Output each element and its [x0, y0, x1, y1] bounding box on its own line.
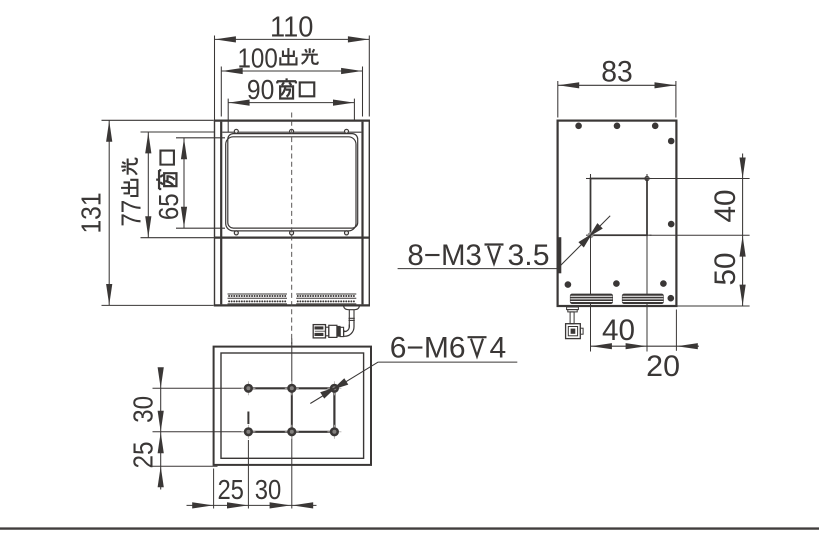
- dim 30 left text (rotated): [126, 396, 158, 423]
- dim 100 extension lines: [220, 67, 222, 117]
- front view body outline: [215, 121, 370, 306]
- front view centerline: [291, 113, 293, 345]
- front vent grille right: [228, 297, 288, 299]
- svg-text:30: 30: [126, 396, 158, 423]
- window frame inner rounded rect: [228, 134, 358, 229]
- left dim line 30/25: [160, 370, 162, 490]
- svg-text:25: 25: [217, 473, 244, 505]
- cable ring 1: [340, 327, 343, 336]
- dim 83 line and arrows: [558, 84, 676, 86]
- side view body outline: [558, 121, 677, 306]
- cable plug slots: [315, 327, 323, 330]
- svg-text:6−M6: 6−M6: [390, 332, 466, 365]
- square corner hole circle top-right: [645, 176, 649, 180]
- dim 25 left text (rotated): [126, 442, 158, 469]
- front view inner side walls: [220, 122, 222, 305]
- side connector tab: [580, 328, 583, 334]
- side vent louvers left: [570, 294, 613, 304]
- square corner tick marks: [586, 178, 595, 180]
- window frame outer rounded rect: [226, 137, 356, 231]
- cable plug body: [313, 325, 325, 338]
- bottom view inner outline: [221, 353, 364, 458]
- dim 131 text (rotated): [75, 193, 107, 234]
- dim 65chuangkou text (rotated): [152, 151, 184, 221]
- dim 40 right text (rotated): [709, 190, 742, 223]
- svg-text:77: 77: [115, 200, 147, 227]
- dim 65 extension lines: [176, 137, 225, 139]
- dim 77 extension lines: [141, 131, 215, 133]
- side view left edge thick bar: [558, 237, 561, 273]
- svg-text:25: 25: [126, 442, 158, 469]
- svg-text:3.5: 3.5: [508, 239, 550, 272]
- svg-text:65: 65: [152, 193, 184, 220]
- svg-text:4: 4: [490, 332, 507, 365]
- label 6-M6 leader: [378, 361, 517, 363]
- side connector washer: [567, 307, 579, 310]
- side view screw dots right column: [668, 138, 675, 145]
- cable elbow: [344, 322, 354, 337]
- bottom ext lines 25/30: [213, 469, 215, 509]
- svg-text:20: 20: [646, 350, 680, 383]
- bottom view centerline: [291, 339, 293, 509]
- dim 65 line and arrows: [183, 138, 185, 228]
- window screws: [234, 129, 238, 133]
- right ext lines 40/50: [650, 178, 750, 180]
- dim 50 right text (rotated): [709, 253, 742, 286]
- svg-text:40: 40: [709, 190, 742, 223]
- left ext lines to holes: [153, 387, 245, 389]
- svg-text:83: 83: [601, 55, 633, 88]
- cable ring 2: [326, 327, 329, 336]
- dim 77chuguang text (rotated): [115, 159, 147, 227]
- svg-text:131: 131: [75, 193, 107, 234]
- dim 83 extension lines: [557, 81, 559, 118]
- right dim line 40/50: [742, 154, 744, 307]
- dim 131 line and arrows: [108, 120, 110, 305]
- svg-text:50: 50: [709, 253, 742, 286]
- svg-text:8−M3: 8−M3: [407, 239, 482, 272]
- side mounting square: [591, 179, 648, 236]
- square column extension lines: [590, 235, 592, 351]
- mounting holes 6x: [241, 387, 255, 389]
- svg-text:110: 110: [270, 11, 313, 43]
- hole connect line center column: [291, 388, 293, 432]
- cable tube vertical: [348, 310, 350, 328]
- bottom view outer outline: [214, 347, 371, 465]
- side view screw dots bottom row: [565, 281, 572, 288]
- cable block: [329, 325, 337, 337]
- side view screw dots top row: [575, 123, 582, 130]
- stub above bottom-left hole: [247, 412, 249, 425]
- cable block cap: [337, 326, 340, 336]
- dim 110 extension lines: [214, 36, 216, 120]
- front vent grille left: [228, 293, 288, 295]
- bottom dim line 40/20: [591, 345, 699, 347]
- hole connect line row1: [248, 387, 334, 389]
- svg-text:90: 90: [247, 73, 274, 105]
- cable gland dome: [344, 306, 360, 309]
- page bottom border line: [0, 527, 819, 529]
- square corner hole gray bottom-left: [588, 232, 594, 238]
- bottom dim line 25/30: [187, 504, 317, 506]
- hole connect line row2: [248, 431, 334, 433]
- side connector stem: [570, 312, 574, 324]
- svg-text:30: 30: [255, 473, 282, 505]
- front panel top line with screws: [222, 131, 361, 133]
- dim 90 extension lines: [227, 99, 229, 133]
- side connector plug: [566, 324, 581, 339]
- dim 131 extension lines: [102, 119, 214, 121]
- svg-text:40: 40: [602, 314, 635, 347]
- dim 77 line and arrows: [147, 132, 149, 238]
- dim 90 line and arrows: [228, 102, 354, 104]
- dim 100 line and arrows: [221, 70, 362, 72]
- dim 110 line and arrows: [215, 38, 370, 40]
- svg-text:100: 100: [238, 41, 278, 73]
- label 8-M3 leader: [398, 268, 558, 270]
- front panel separator line: [215, 237, 370, 239]
- bottom ext lines 40/20: [675, 310, 677, 351]
- hole connect line right column: [333, 388, 335, 432]
